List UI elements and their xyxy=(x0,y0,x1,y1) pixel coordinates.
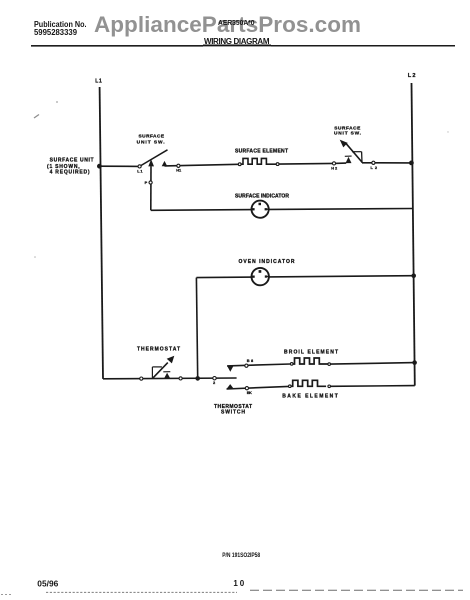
svg-text:OVEN INDICATOR: OVEN INDICATOR xyxy=(239,259,295,265)
svg-text:SURFACE ELEMENT: SURFACE ELEMENT xyxy=(235,149,288,155)
svg-text:10: 10 xyxy=(233,579,244,588)
svg-text:B8: B8 xyxy=(247,358,254,363)
svg-text:UNIT SW.: UNIT SW. xyxy=(137,139,165,145)
svg-text:2: 2 xyxy=(213,380,216,385)
svg-text:SURFACE: SURFACE xyxy=(139,134,165,140)
svg-text:SWITCH: SWITCH xyxy=(221,410,245,416)
svg-text:L2: L2 xyxy=(408,73,416,79)
svg-text:SURFACE UNIT: SURFACE UNIT xyxy=(50,158,94,164)
svg-text:5995283339: 5995283339 xyxy=(34,28,78,37)
svg-text:SURFACE INDICATOR: SURFACE INDICATOR xyxy=(235,193,289,199)
svg-text:SURFACE: SURFACE xyxy=(334,125,361,131)
svg-text:BK: BK xyxy=(247,390,252,395)
svg-text:L1: L1 xyxy=(137,168,143,173)
svg-text:H2: H2 xyxy=(331,165,338,170)
svg-text:AER350A*0: AER350A*0 xyxy=(218,20,255,27)
svg-text:THERMOSTAT: THERMOSTAT xyxy=(137,346,180,352)
svg-text:05/96: 05/96 xyxy=(37,580,59,589)
svg-text:BROIL ELEMENT: BROIL ELEMENT xyxy=(284,349,338,355)
svg-text:H1: H1 xyxy=(176,168,182,173)
svg-text:P/N 191SO2IP58: P/N 191SO2IP58 xyxy=(222,552,260,559)
svg-text:P: P xyxy=(145,180,148,185)
svg-text:BAKE ELEMENT: BAKE ELEMENT xyxy=(282,394,338,400)
svg-text:WIRING DIAGRAM: WIRING DIAGRAM xyxy=(204,37,270,46)
svg-text:UNIT SW.: UNIT SW. xyxy=(334,131,361,137)
svg-text:L1: L1 xyxy=(95,79,102,85)
svg-text:L2: L2 xyxy=(371,165,378,170)
svg-text:4 REQUIRED): 4 REQUIRED) xyxy=(50,170,90,176)
